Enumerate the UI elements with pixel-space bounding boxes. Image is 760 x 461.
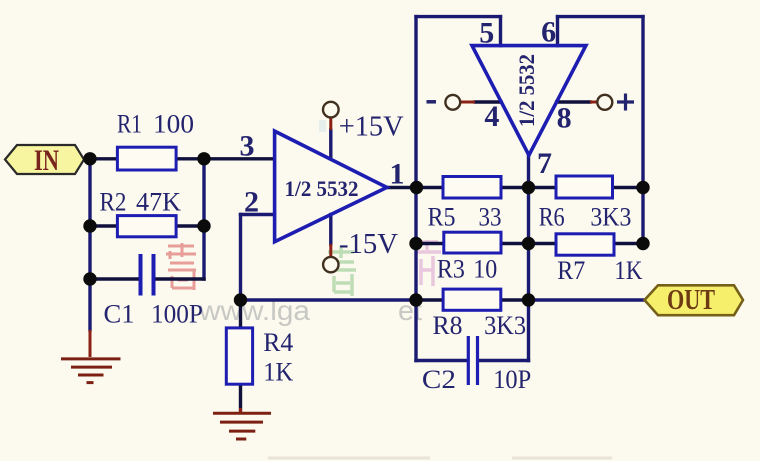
ground G1 below C1 xyxy=(61,359,121,383)
junction dot rail row2 xyxy=(409,237,422,250)
svg-text:8: 8 xyxy=(557,102,572,135)
wire R1 to U1 pin3 xyxy=(176,157,274,160)
svg-text:5: 5 xyxy=(479,17,494,50)
wire to OUT xyxy=(529,298,646,301)
wire R7 left xyxy=(529,242,557,245)
wire U2 pin6 stub xyxy=(556,17,559,46)
U2 pin8 terminal circle xyxy=(597,95,612,110)
junction dot R7 right xyxy=(636,237,649,250)
junction dot R1 right xyxy=(197,152,210,165)
svg-text:1/2 5532: 1/2 5532 xyxy=(514,54,539,127)
wire node row y300 left xyxy=(241,298,417,301)
junction dot OUT node xyxy=(522,293,535,306)
svg-text:R8: R8 xyxy=(433,311,463,340)
watermark pink character xyxy=(417,240,441,286)
svg-text:3: 3 xyxy=(240,130,255,163)
junction dot R6 right xyxy=(636,181,649,194)
wire main vertical rail x416 xyxy=(414,17,417,361)
svg-text:7: 7 xyxy=(537,147,552,180)
junction dot R3 R7 node xyxy=(522,237,535,250)
port IN xyxy=(5,145,84,174)
junction dot IN xyxy=(83,152,96,165)
wire U1 output xyxy=(387,186,416,189)
capacitor C1 xyxy=(141,254,154,296)
wire C2 left bottom xyxy=(416,359,467,362)
wire red ground stem xyxy=(89,330,92,357)
svg-text:R4: R4 xyxy=(263,328,293,357)
svg-text:1/2 5532: 1/2 5532 xyxy=(285,176,359,201)
svg-text:R2: R2 xyxy=(100,188,127,217)
wire R4 bottom stem xyxy=(239,384,242,411)
port OUT xyxy=(645,285,744,315)
plus sign xyxy=(617,94,634,111)
svg-text:100P: 100P xyxy=(151,300,203,329)
svg-text:4: 4 xyxy=(484,100,499,133)
wire U2 pin5 stub xyxy=(499,17,502,46)
wire R4 top xyxy=(239,300,242,328)
svg-text:2: 2 xyxy=(244,186,259,219)
wire R7 right xyxy=(614,242,643,245)
svg-text:1K: 1K xyxy=(263,358,293,387)
junction dot rail row3 xyxy=(409,293,422,306)
wire U2 pin7 stub xyxy=(527,155,530,188)
wire -15V stem xyxy=(329,215,332,245)
wire IN to R1 xyxy=(84,157,117,160)
wire R6 left xyxy=(529,186,557,189)
wire R8 right xyxy=(501,298,529,301)
op-amp U1 triangle xyxy=(275,131,387,242)
wire R3 left xyxy=(416,242,444,245)
resistor R4 xyxy=(226,328,252,384)
wire U2 pin4 xyxy=(475,100,501,103)
svg-text:R6: R6 xyxy=(539,203,565,232)
wire +15V red stub xyxy=(329,118,332,131)
svg-text:3K3: 3K3 xyxy=(590,203,631,232)
wire top loop left xyxy=(416,15,501,18)
resistor R5 xyxy=(443,177,501,199)
svg-text:OUT: OUT xyxy=(667,285,715,316)
wire R2 right xyxy=(176,224,204,227)
wire U1 pin2 vertical xyxy=(239,215,242,301)
svg-text:IN: IN xyxy=(34,144,59,177)
minus sign xyxy=(427,100,437,104)
wire +15V stem xyxy=(329,130,332,158)
capacitor C2 xyxy=(468,336,477,385)
wire ground stem below C1 xyxy=(88,279,91,330)
svg-text:R3: R3 xyxy=(437,255,465,284)
svg-text:10: 10 xyxy=(473,255,497,284)
svg-text:100: 100 xyxy=(153,110,194,139)
svg-text:1: 1 xyxy=(390,158,405,191)
junction dot R2 left xyxy=(83,219,96,232)
resistor R8 xyxy=(443,289,501,310)
junction dot R2 right xyxy=(197,219,210,232)
wire vertical node x90 xyxy=(88,159,91,279)
wire U2 pin8 xyxy=(557,100,590,103)
watermark green character xyxy=(326,246,356,296)
wire R5 right xyxy=(501,186,529,189)
svg-text:6: 6 xyxy=(541,16,556,49)
svg-text:C1: C1 xyxy=(104,300,135,329)
wire R6 right xyxy=(613,186,644,189)
resistor R1 xyxy=(117,147,176,170)
resistor R2 xyxy=(117,216,176,237)
watermark red stamp character xyxy=(166,243,196,290)
svg-text:3K3: 3K3 xyxy=(484,311,526,340)
watermark cyan smudge xyxy=(319,120,326,132)
wire vertical node x204 xyxy=(202,159,205,279)
wire ground stem below R4 red xyxy=(239,408,242,413)
junction dot C1 left xyxy=(83,272,96,285)
svg-text:33: 33 xyxy=(479,203,502,232)
svg-text:10P: 10P xyxy=(493,365,531,394)
op-amp U2 triangle xyxy=(472,46,586,156)
svg-text:1K: 1K xyxy=(614,256,642,285)
svg-text:+15V: +15V xyxy=(339,111,404,143)
bottom cropped caption marks xyxy=(268,457,612,460)
ground G2 below R4 xyxy=(213,413,271,439)
wire U1 pin2 horizontal xyxy=(241,213,275,216)
wire R8 left xyxy=(416,298,443,301)
svg-text:-15V: -15V xyxy=(339,228,398,260)
junction dot U1 output xyxy=(410,181,423,194)
wire U2 pin4 red stub xyxy=(461,101,475,104)
resistor R3 xyxy=(444,232,501,253)
power -15V circle xyxy=(323,257,338,272)
svg-text:47K: 47K xyxy=(136,188,181,217)
svg-text:R1: R1 xyxy=(117,110,142,139)
wire R2 left xyxy=(90,224,117,227)
wire right rail x641 xyxy=(641,17,644,244)
wire C1 right xyxy=(155,277,204,280)
resistor R7 xyxy=(556,234,614,255)
wire C1 left xyxy=(90,277,139,280)
svg-text:C2: C2 xyxy=(422,365,456,394)
power +15V circle xyxy=(323,102,339,118)
wire -15V red stub xyxy=(329,244,332,257)
wire R3 right xyxy=(501,242,529,245)
junction dot pin7 node xyxy=(522,181,535,194)
resistor R6 xyxy=(556,176,613,198)
junction dot R4 node xyxy=(234,293,247,306)
wire middle rail x528 xyxy=(527,188,530,361)
wire C2 right bottom xyxy=(479,359,528,362)
wire R5 left xyxy=(416,186,443,189)
wire top loop right xyxy=(558,15,644,18)
U2 pin4 terminal circle xyxy=(445,95,460,110)
svg-text:R5: R5 xyxy=(428,203,456,232)
wire U2 pin8 red stub xyxy=(590,101,598,104)
svg-text:R7: R7 xyxy=(557,256,585,285)
